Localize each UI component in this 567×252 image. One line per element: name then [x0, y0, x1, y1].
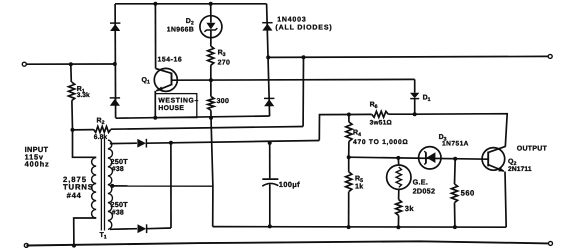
wire 560 top lead [454, 159, 457, 184]
wire GE top lead [397, 158, 399, 165]
node rect top-cap junction [268, 141, 272, 145]
box Westinghouse label [155, 94, 197, 118]
transistor Q2 collector [488, 146, 505, 152]
node D1 bottom junction [413, 112, 417, 116]
resistor R2 6.8k [94, 126, 111, 132]
svg-text:3k: 3k [405, 204, 415, 213]
wire R2 left lead [73, 129, 94, 131]
diode bridge lower-right 1N4003 [264, 99, 274, 106]
wire left bridge rail vertical [114, 4, 117, 118]
resistor 3k [396, 200, 402, 216]
node base-R3 junction [209, 78, 213, 82]
node D2 branch-top rail [209, 2, 213, 6]
diode bridge upper-right 1N4003 [262, 24, 272, 31]
wire R4 top lead [348, 115, 350, 122]
svg-text:1k: 1k [355, 183, 363, 191]
zener D3 symbol [427, 152, 436, 163]
thermistor G.E. 2D052 circle [387, 165, 411, 189]
svg-text:WESTING–: WESTING– [158, 97, 198, 104]
svg-text:#38: #38 [112, 209, 124, 216]
wire R5 bottom lead [348, 192, 350, 227]
wire output top rail [268, 56, 548, 57]
resistor R1 3.3k [69, 82, 75, 101]
wire cap bottom lead [269, 184, 271, 226]
wire chopper bottom rail [116, 116, 270, 118]
node rect top-cathode riser [169, 141, 173, 145]
node GE top junction [396, 156, 400, 160]
output terminal top right [548, 54, 552, 58]
wire R6 rail to Q2 collector [415, 114, 508, 147]
svg-text:250T: 250T [111, 200, 129, 209]
zener D2 1N966B circle [200, 16, 222, 38]
svg-text:100μf: 100μf [279, 180, 300, 189]
wire 300-bottom lead [210, 110, 212, 117]
wire Q1 emitter lead [154, 91, 156, 118]
svg-text:2D052: 2D052 [413, 187, 436, 196]
svg-text:1N966B: 1N966B [167, 26, 194, 33]
svg-text:470 TO 1,000Ω: 470 TO 1,000Ω [353, 139, 409, 146]
transformer T1 primary winding [92, 158, 97, 218]
wire cathode riser vertical [170, 143, 172, 228]
wire secondary top [110, 142, 137, 144]
wire R2 right lead [111, 127, 303, 130]
svg-text:300: 300 [217, 98, 230, 105]
diode rectifier top 1N4003 [137, 139, 146, 148]
svg-text:560: 560 [461, 189, 475, 198]
svg-text:3.3k: 3.3k [77, 92, 90, 99]
wire right bridge rail vertical [267, 4, 270, 116]
node Q1 collector-top rail [153, 2, 157, 6]
wire rect top to riser [146, 141, 319, 144]
node 3k-mid rail [396, 225, 400, 229]
svg-text:250T: 250T [111, 157, 129, 166]
node R1-R2 junction [71, 128, 75, 132]
diode bridge upper-left 1N4003 [110, 24, 120, 31]
diode D1 1N4003 [414, 79, 416, 92]
thermistor G.E. 2D052 element [396, 167, 401, 187]
resistor R6 3w51 [372, 111, 389, 117]
transistor Q2 base bar [487, 152, 489, 167]
wire center tap [112, 185, 213, 187]
wire 3k bottom lead [397, 216, 399, 228]
svg-text:154-16: 154-16 [158, 56, 183, 63]
svg-text:T1: T1 [100, 232, 107, 241]
output terminal bottom right [549, 241, 553, 245]
transistor Q2 emitter [488, 165, 504, 172]
wire 560 bottom lead [454, 203, 456, 228]
transistor Q1 circle [154, 68, 177, 91]
transistor Q1 emitter [156, 85, 171, 91]
zener D2 symbol [206, 23, 215, 30]
svg-text:400hz: 400hz [25, 160, 50, 169]
wire base drive horizontal [172, 78, 415, 81]
transformer T1 secondary winding [108, 140, 113, 229]
node output rail at right bridge rail [266, 55, 270, 59]
wire R1 bottom lead [72, 101, 96, 158]
resistor 560 [451, 184, 457, 203]
node output rail at R2 riser [302, 55, 306, 59]
wire D2-R3 lead [210, 38, 212, 46]
svg-text:2N1711: 2N1711 [508, 166, 532, 173]
wire rect riser to R6 rail [319, 115, 349, 141]
wire cap top lead [269, 143, 271, 179]
wire R2 riser vertical [302, 57, 304, 126]
resistor 300 [208, 97, 214, 111]
svg-text:(ALL DIODES): (ALL DIODES) [275, 24, 332, 32]
node 300 ohm-bottom rail [209, 116, 213, 120]
svg-text:1N751A: 1N751A [442, 140, 469, 147]
diode rectifier bottom 1N4003 [138, 224, 147, 233]
svg-text:G.E.: G.E. [413, 178, 429, 187]
svg-text:3w51Ω: 3w51Ω [370, 120, 392, 127]
wire R5 top lead [348, 157, 350, 172]
wire D2 top lead [210, 4, 212, 16]
wire GE bottom lead [398, 189, 400, 199]
node R4-R5-reg rail junction [347, 155, 351, 159]
node cap-mid rail [268, 224, 272, 228]
wire Q1 collector lead [154, 4, 156, 69]
wire center-tap riser [211, 118, 213, 227]
node primary-bottom rail [72, 244, 76, 248]
svg-text:270: 270 [218, 59, 231, 66]
resistor R4 470-1000 [346, 122, 352, 141]
wire R6 left lead [349, 113, 372, 115]
wire Q2 emitter lead [505, 172, 506, 228]
svg-text:#44: #44 [67, 191, 82, 200]
svg-text:R3: R3 [218, 49, 226, 58]
svg-text:OUTPUT: OUTPUT [517, 145, 548, 152]
resistor R5 1k [346, 172, 352, 192]
node R4 top junction [347, 113, 351, 117]
svg-text:D2: D2 [186, 18, 194, 27]
svg-text:Q1: Q1 [142, 77, 150, 86]
zener D3 1N751A circle [419, 147, 441, 169]
wire mid return rail [213, 226, 507, 229]
svg-text:6.8k: 6.8k [94, 134, 108, 141]
svg-text:R4: R4 [353, 130, 361, 139]
wire regulator mid rail [349, 157, 489, 159]
svg-text:R6: R6 [370, 102, 378, 111]
node emitter-bottom rail [153, 116, 157, 120]
svg-text:#38: #38 [112, 166, 124, 173]
node input-R1 junction [69, 62, 73, 66]
capacitor 100uf plates [262, 178, 278, 180]
svg-text:HOUSE: HOUSE [158, 105, 184, 112]
transformer T1 core [100, 139, 102, 231]
node 560-mid rail [453, 225, 457, 229]
wire R4 bottom lead [348, 141, 350, 157]
wire secondary bottom [110, 228, 137, 231]
node R5-mid rail [347, 225, 351, 229]
node secondary center tap [110, 184, 114, 188]
node input-left-rail junction [113, 62, 117, 66]
wire rect bottom to riser [147, 227, 171, 230]
wire R6 right lead [388, 113, 414, 115]
input terminal (+) top left [22, 62, 26, 66]
node 560 top junction [453, 157, 457, 161]
resistor R3 270 [208, 46, 214, 65]
wire R1 top lead [70, 64, 73, 82]
wire bottom rail [26, 241, 548, 245]
svg-text:1N4003: 1N4003 [277, 17, 306, 24]
wire input top [26, 63, 114, 65]
transistor Q1 base bar [171, 73, 173, 86]
svg-text:D1: D1 [423, 95, 431, 104]
transistor Q2 circle [482, 148, 505, 171]
diode bridge lower-left 1N4003 [110, 99, 120, 106]
input terminal (-) bottom left [24, 243, 28, 247]
wire primary bottom lead [74, 218, 97, 246]
wire top rail [115, 3, 267, 5]
wire R3-base lead [210, 65, 212, 96]
